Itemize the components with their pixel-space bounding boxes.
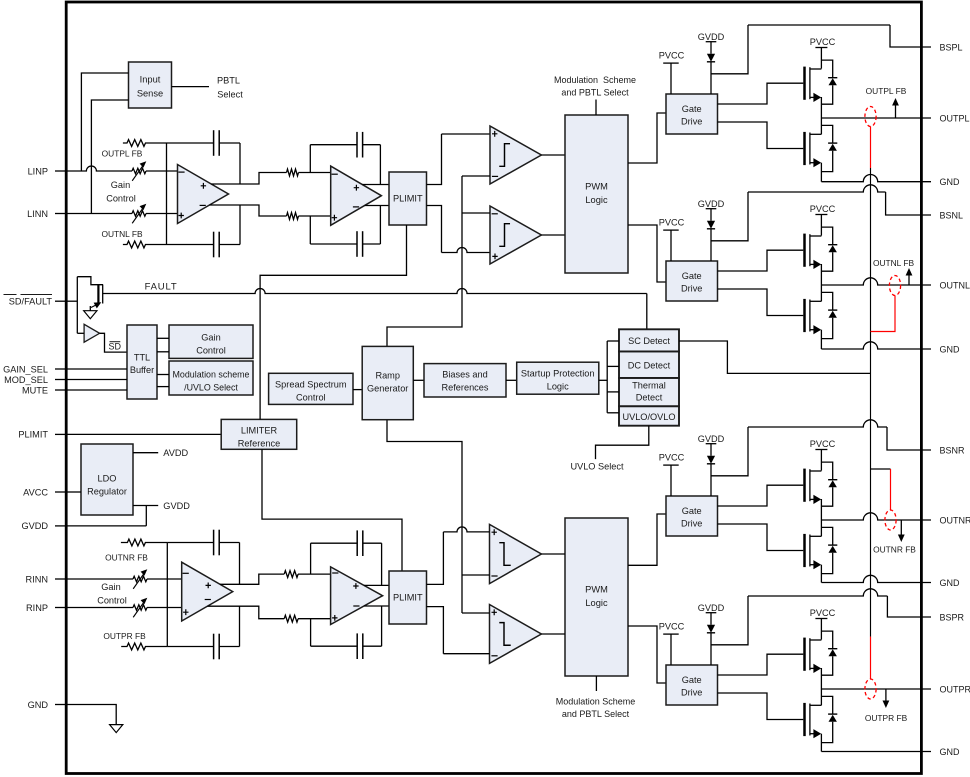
wire MUTE to TTL buffer: [67, 389, 127, 391]
svg-text:Reference: Reference: [238, 438, 280, 448]
block: DC Detect: [619, 352, 679, 379]
wire sense OUTNL (red): [871, 296, 896, 332]
wire to U3 input: [77, 332, 84, 334]
svg-text:Gate: Gate: [682, 675, 702, 685]
resistor R3: [287, 169, 299, 176]
op-amp U5 second stage right: [331, 567, 383, 625]
wire U2 top feedback to C3: [310, 144, 357, 146]
wire PBTL Select output: [172, 86, 210, 88]
svg-text:Control: Control: [106, 194, 136, 204]
svg-text:Control: Control: [97, 596, 127, 606]
variable resistor gain control RINN: [133, 576, 147, 581]
svg-text:GND: GND: [940, 344, 961, 354]
wire PVCC to Q3H drain: [820, 450, 822, 471]
svg-text:UVLO/OVLO: UVLO/OVLO: [622, 412, 675, 422]
svg-text:Drive: Drive: [681, 117, 702, 127]
transistor Q2H high side: [803, 234, 806, 267]
wire SSC to Ramp Generator: [353, 389, 362, 391]
wire GND line (stage 3): [821, 575, 931, 582]
svg-text:Detect: Detect: [636, 393, 663, 403]
wire OUTNR FB tap arrow: [900, 520, 902, 536]
svg-text:TTL: TTL: [134, 352, 150, 362]
wire U4 +out to R5: [220, 574, 284, 584]
capacitor C1 (integrator top): [213, 130, 215, 156]
transistor Q3H high side: [803, 469, 806, 502]
wire UVLO Select: [596, 426, 649, 459]
wire comparator A out to PWM: [541, 154, 565, 156]
svg-text:MOD_SEL: MOD_SEL: [4, 375, 48, 385]
comparator A (left hi): [490, 126, 541, 184]
wire to FAULT FET drain: [77, 277, 103, 285]
wire U1 -out to R4: [210, 205, 287, 216]
sense ellipse OUTPR: [865, 679, 876, 699]
svg-text:UVLO Select: UVLO Select: [570, 461, 624, 471]
svg-text:BSNR: BSNR: [940, 445, 966, 455]
svg-text:GAIN_SEL: GAIN_SEL: [3, 364, 48, 374]
svg-text:Generator: Generator: [367, 383, 408, 393]
wire gate drive 2 high out: [718, 250, 804, 271]
svg-text:SD/FAULT: SD/FAULT: [9, 296, 53, 306]
wire C7 to U5 +out: [381, 543, 383, 585]
resistor R5: [284, 571, 298, 578]
wire gate drive 1 high out: [718, 83, 804, 104]
svg-text:GVDD: GVDD: [163, 501, 190, 511]
block: Gate Drive 4: [666, 665, 718, 705]
wire LINP input line: [67, 166, 132, 171]
wire gate drive 3 high out: [718, 485, 804, 506]
capacitor C3: [356, 132, 358, 158]
svg-text:Input: Input: [140, 75, 161, 85]
diode body Q1H: [821, 60, 832, 78]
wire C2 to -out: [239, 205, 241, 245]
wire LINN input line: [67, 213, 132, 215]
sense ellipse OUTPL: [865, 107, 876, 127]
wire U2 bottom feedback to C4: [310, 243, 357, 245]
svg-text:PBTL: PBTL: [217, 76, 240, 86]
diode D3 bootstrap: [707, 456, 715, 464]
wire Input Sense tap to LINP: [81, 73, 128, 171]
wire gate drive 4 low out: [718, 693, 804, 720]
wire label stub to PWM2: [595, 676, 597, 691]
wire C8 to U5 +in: [310, 619, 312, 647]
svg-text:PVCC: PVCC: [659, 621, 685, 631]
svg-text:FAULT: FAULT: [145, 281, 178, 292]
block: PWM Logic (right): [565, 518, 628, 676]
wire PWM2 out2 to gate drive 4: [628, 626, 666, 683]
wire ramp generator to lower comparators: [387, 420, 462, 613]
svg-text:Thermal: Thermal: [632, 380, 666, 390]
svg-text:Drive: Drive: [681, 688, 702, 698]
diode body Q4H: [821, 631, 832, 649]
wire summing rail left channel: [166, 143, 168, 245]
variable resistor gain control RINP: [133, 605, 147, 610]
svg-text:GVDD: GVDD: [698, 199, 725, 209]
wire output node (stage 2): [821, 278, 931, 285]
wire gate drive 1 low out: [718, 122, 804, 149]
block: Gate Drive 3: [666, 496, 718, 536]
svg-text:Control: Control: [296, 392, 326, 402]
svg-text:OUTNL: OUTNL: [940, 280, 970, 290]
wire Q2H source to node: [820, 264, 822, 285]
wire MOD_SEL to TTL buffer: [67, 379, 127, 381]
diode D2 bootstrap: [707, 221, 715, 229]
wire GVDD to gate drive 1: [710, 62, 712, 94]
svg-text:Drive: Drive: [681, 284, 702, 294]
wire TTL to Mod scheme a: [157, 374, 169, 376]
wire PVCC to Q1H drain: [820, 48, 822, 69]
svg-text:PVCC: PVCC: [659, 50, 685, 60]
wire TTL to Mod scheme b: [157, 386, 169, 388]
sense ellipse OUTNL: [889, 276, 900, 296]
wire GAIN_SEL to TTL buffer: [67, 368, 127, 370]
wire Q1L drain to node: [820, 118, 822, 134]
diode body Q3H: [821, 462, 832, 480]
resistor R4: [287, 213, 299, 220]
svg-text:GVDD: GVDD: [698, 603, 725, 613]
svg-text:BSPR: BSPR: [940, 612, 965, 622]
capacitor C6: [213, 634, 215, 660]
variable resistor gain control LINN: [132, 211, 146, 216]
wire R4 to U2 +in: [299, 215, 331, 217]
wire PLIMIT1 out2 riser: [427, 206, 442, 253]
svg-text:Logic: Logic: [585, 598, 608, 608]
transistor Q1H high side: [803, 67, 806, 100]
wire PLIMIT pin to LIMITER Reference: [67, 433, 221, 435]
node current-sense bus: [870, 168, 872, 637]
svg-text:PVCC: PVCC: [810, 204, 836, 214]
wire PVCC to Q2H drain: [820, 215, 822, 236]
svg-text:Gate: Gate: [682, 104, 702, 114]
resistor OUTPL FB feedback: [123, 140, 167, 147]
wire AVDD output: [133, 452, 158, 454]
svg-text:GVDD: GVDD: [21, 521, 48, 531]
svg-text:OUTPR FB: OUTPR FB: [865, 713, 908, 723]
wire PLIMIT2 out1 riser: [427, 532, 444, 585]
svg-text:PVCC: PVCC: [659, 452, 685, 462]
wire R6 to U5 +in: [298, 618, 331, 620]
ground symbol at Q1: [84, 311, 97, 319]
diode body Q2H: [821, 227, 832, 245]
resistor OUTNL FB feedback: [123, 241, 167, 248]
block: PLIMIT2: [389, 571, 427, 624]
svg-text:RINN: RINN: [26, 574, 48, 584]
wire GND line (stage 2): [821, 342, 931, 349]
wire PWM1 out2 to gate drive 2: [628, 225, 666, 282]
wire GVDD to gate drive 2: [710, 229, 712, 261]
transistor Q4L low side: [803, 703, 806, 736]
svg-text:Gain: Gain: [111, 180, 130, 190]
svg-text:PWM: PWM: [585, 585, 608, 595]
wire C3 to U2 -in: [309, 145, 311, 173]
wire GND line (stage 1): [821, 174, 931, 181]
block: Spread Spectrum Control: [269, 373, 353, 404]
wire C8 to U5 -out: [381, 606, 383, 646]
svg-text:PVCC: PVCC: [810, 608, 836, 618]
wire PLIMIT2 out2 riser: [427, 607, 444, 654]
diode D4 bootstrap: [707, 625, 715, 633]
resistor OUTPR FB feedback: [121, 643, 167, 650]
svg-text:BSNL: BSNL: [940, 210, 964, 220]
transistor Q4H high side: [803, 638, 806, 671]
wire SC Detect to current sense bus: [679, 341, 871, 373]
wire U4 -out to R6: [207, 606, 284, 619]
wire Q3H source to node: [820, 499, 822, 520]
wire to comparator C +in (hops ramp): [443, 527, 489, 532]
svg-text:PWM: PWM: [585, 182, 608, 192]
svg-text:Gain: Gain: [201, 333, 220, 343]
capacitor C2 (integrator bottom): [213, 232, 215, 258]
svg-text:GVDD: GVDD: [698, 434, 725, 444]
wire to Thermal Detect: [607, 391, 619, 393]
wire OUTPL FB tap arrow: [895, 105, 897, 119]
svg-text:and PBTL Select: and PBTL Select: [562, 709, 630, 719]
svg-text:AVDD: AVDD: [163, 448, 188, 458]
diode body Q2L: [821, 292, 832, 310]
transistor Q1L low side: [803, 132, 806, 165]
wire bootstrap BS (stage 3): [711, 427, 748, 476]
wire gate drive 4 high out: [718, 654, 804, 675]
svg-text:Logic: Logic: [547, 382, 569, 392]
wire Q3L drain to node: [820, 520, 822, 536]
wire C6 to -out: [239, 606, 241, 646]
wire PLIMIT1 out1 riser: [427, 134, 442, 185]
wire sense OUTPL (red): [870, 127, 872, 169]
wire output node (stage 1): [821, 117, 931, 119]
block: Ramp Generator: [362, 346, 413, 419]
svg-text:Biases and: Biases and: [442, 370, 487, 380]
wire U3 out (SD) to TTL buffer: [100, 333, 127, 352]
wire to comparator A +in: [442, 133, 491, 135]
wire U5 bottom feedback to C8: [311, 645, 358, 647]
wire comparator D out to PWM2: [541, 633, 565, 635]
svg-text:Modulation Scheme: Modulation Scheme: [556, 696, 636, 706]
wire output node (stage 4): [821, 688, 931, 690]
wire Q4H source to node: [820, 668, 822, 689]
wire Q4L drain to node: [820, 689, 822, 705]
op-amp U4 first stage right: [182, 562, 233, 621]
block: Gain Control: [169, 325, 253, 358]
wire GVDD pin line: [67, 525, 146, 527]
svg-text:Control: Control: [196, 346, 226, 356]
op-amp U2 second stage left: [331, 166, 382, 225]
wire gate drive 3 low out: [718, 524, 804, 551]
svg-text:SC Detect: SC Detect: [628, 336, 670, 346]
svg-text:DC Detect: DC Detect: [628, 361, 671, 371]
svg-text:Spread Spectrum: Spread Spectrum: [275, 379, 347, 389]
wire U1 +out to R3: [211, 173, 286, 185]
wire ramp generator to upper comparators: [387, 176, 462, 346]
svg-text:GVDD: GVDD: [698, 32, 725, 42]
wire Q2L drain to node: [820, 285, 822, 301]
wire bottom feedback row to cap C6: [167, 646, 213, 648]
wire LIMITER Reference to PLIMIT2: [262, 449, 402, 571]
svg-text:AVCC: AVCC: [23, 487, 48, 497]
wire Q1L source to GND: [820, 163, 822, 182]
wire Q1H source to node: [820, 97, 822, 118]
wire Ramp Gen to Biases: [413, 379, 424, 381]
wire OUTPR FB tap arrow: [885, 689, 887, 702]
svg-text:SD: SD: [109, 341, 122, 351]
wire RINP input line: [67, 607, 133, 609]
wire Q1 source to ground: [89, 306, 91, 311]
svg-text:LIMITER: LIMITER: [241, 425, 278, 435]
wire ramp to comparator A -in: [462, 175, 490, 177]
svg-text:OUTNL FB: OUTNL FB: [101, 229, 143, 239]
wire to DC Detect: [607, 365, 619, 367]
wire TTL to Gain Control b: [157, 351, 169, 353]
comparator B (left lo): [490, 206, 541, 264]
wire RINN input line: [67, 578, 133, 580]
wire C7 to U5 -in: [310, 543, 312, 574]
wire Q4L source to GND: [820, 734, 822, 752]
svg-text:OUTNL FB: OUTNL FB: [873, 258, 915, 268]
svg-text:and PBTL Select: and PBTL Select: [561, 87, 629, 97]
diode D1 bootstrap: [707, 54, 715, 62]
buffer U3 SD input buffer: [84, 324, 100, 342]
wire GVDD to gate drive 4: [710, 633, 712, 665]
svg-text:OUTPL FB: OUTPL FB: [866, 86, 907, 96]
wire to UVLO/OVLO: [607, 412, 619, 414]
svg-text:MUTE: MUTE: [22, 385, 48, 395]
wire U2 -out to PLIMIT1: [365, 205, 389, 207]
svg-text:PLIMIT: PLIMIT: [393, 194, 423, 204]
op-amp U1 first stage left: [178, 165, 229, 224]
svg-text:Startup Protection: Startup Protection: [521, 369, 595, 379]
svg-text:GND: GND: [28, 700, 49, 710]
wire PVCC to Q4H drain: [820, 619, 822, 640]
svg-text:PLIMIT: PLIMIT: [393, 593, 423, 603]
svg-text:Gate: Gate: [682, 506, 702, 516]
wire PWM2 out1 to gate drive 3: [628, 514, 666, 565]
wire bottom feedback row to cap C2: [167, 244, 214, 246]
wire Startup Protection to detect stack: [599, 379, 607, 381]
wire C4 to U2 +in: [309, 216, 311, 244]
svg-text:OUTNR FB: OUTNR FB: [873, 544, 916, 554]
wire SD/FAULT vertical: [76, 277, 78, 334]
svg-text:LINN: LINN: [27, 209, 48, 219]
wire FAULT net to SC Detect: [103, 289, 647, 294]
ground symbol main: [110, 725, 123, 733]
wire U5 top feedback to C7: [311, 542, 358, 544]
block: Startup Protection Logic: [517, 362, 599, 394]
wire PWM1 out1 to gate drive 1: [628, 113, 666, 163]
wire C3 to U2 +out: [379, 145, 381, 185]
wire Q3L source to GND: [820, 565, 822, 583]
wire R3 to U2 -in: [299, 172, 331, 174]
wire label stub to PWM1: [595, 100, 597, 116]
diode body Q3L: [821, 527, 832, 545]
svg-text:Logic: Logic: [585, 195, 608, 205]
wire C4 to U2 -out: [379, 206, 381, 245]
wire GVDD output: [133, 505, 158, 507]
wire U5 +out to PLIMIT2: [364, 584, 389, 586]
svg-text:OUTPR FB: OUTPR FB: [103, 631, 146, 641]
capacitor C7: [356, 530, 358, 556]
svg-text:Select: Select: [217, 90, 243, 100]
svg-text:Buffer: Buffer: [130, 365, 154, 375]
wire U2 +out to PLIMIT1: [362, 184, 389, 186]
wire bootstrap BS (stage 2): [711, 192, 748, 241]
wire R5 to U5 -in: [298, 573, 331, 575]
svg-text:Gain: Gain: [101, 582, 120, 592]
resistor OUTNR FB feedback: [121, 539, 167, 546]
variable resistor gain control LINP: [132, 168, 146, 173]
wire PLIMIT1 to LIMITER Reference: [260, 225, 406, 419]
transistor Q1 FAULT open-drain FET: [97, 285, 99, 305]
wire U5 -out to PLIMIT2: [364, 605, 389, 607]
svg-text:OUTPL: OUTPL: [940, 113, 970, 123]
block: Biases and References: [424, 364, 506, 397]
wire GVDD to gate drive 3: [710, 464, 712, 496]
svg-text:BSPL: BSPL: [940, 42, 963, 52]
wire comparator C out to PWM2: [541, 553, 565, 555]
svg-text:Modulation scheme: Modulation scheme: [173, 370, 250, 380]
comparator C (right hi): [490, 524, 542, 583]
block: SC Detect: [619, 329, 679, 351]
wire comparator B out to PWM: [541, 234, 565, 236]
wire to comparator D -in: [443, 653, 489, 655]
svg-text:Gate: Gate: [682, 271, 702, 281]
capacitor C8: [356, 633, 358, 659]
svg-text:GND: GND: [940, 578, 961, 588]
wire ramp to comparator C -in: [462, 574, 490, 576]
block: PWM Logic (left): [565, 115, 628, 273]
block: LIMITER Reference: [221, 419, 297, 449]
svg-text:GND: GND: [940, 747, 961, 757]
wire detect stack bus: [606, 341, 608, 413]
wire C1 to +out: [239, 143, 241, 184]
svg-text:RINP: RINP: [26, 603, 48, 613]
wire sense OUTNR: [871, 468, 891, 470]
wire ramp to comparator B -in: [462, 212, 490, 214]
diode body Q1L: [821, 125, 832, 143]
diode body Q4L: [821, 696, 832, 714]
wire to comparator B +in (hops ramp): [442, 248, 491, 253]
wire bootstrap BS (stage 1): [711, 25, 748, 74]
capacitor C5: [213, 530, 215, 556]
wire GND line (stage 4): [821, 751, 931, 753]
svg-text:Regulator: Regulator: [87, 486, 127, 496]
block: UVLO/OVLO: [619, 406, 679, 425]
svg-text:PVCC: PVCC: [659, 217, 685, 227]
wire GVDD to pin: [145, 506, 147, 526]
svg-text:Ramp: Ramp: [375, 370, 400, 380]
svg-text:LDO: LDO: [98, 473, 117, 483]
wire output node (stage 3): [821, 513, 931, 520]
block: PLIMIT1: [389, 172, 427, 225]
svg-text:PVCC: PVCC: [810, 37, 836, 47]
wire top feedback row to cap C5: [167, 542, 213, 544]
wire Q2L source to GND: [820, 330, 822, 349]
wire sense OUTPR (red): [870, 637, 872, 679]
svg-text:References: References: [442, 383, 489, 393]
wire gate drive 2 low out: [718, 289, 804, 316]
svg-text:OUTNR: OUTNR: [940, 515, 970, 525]
block: LDO Regulator: [81, 444, 133, 515]
block: Gate Drive 2: [666, 261, 718, 301]
block: Thermal Detect: [619, 378, 679, 406]
block: Modulation scheme /UVLO Select: [169, 361, 253, 395]
transistor Q3L low side: [803, 534, 806, 567]
wire OUTNL FB tap arrow: [908, 275, 910, 286]
svg-text:PVCC: PVCC: [810, 439, 836, 449]
svg-text:OUTPR: OUTPR: [940, 684, 970, 694]
wire TTL to Gain Control a: [157, 337, 169, 339]
wire Input Sense tap to LINN (hops LINP): [91, 100, 128, 214]
svg-text:OUTNR FB: OUTNR FB: [105, 553, 148, 563]
capacitor C4: [356, 231, 358, 257]
wire GND pin: [67, 705, 116, 725]
